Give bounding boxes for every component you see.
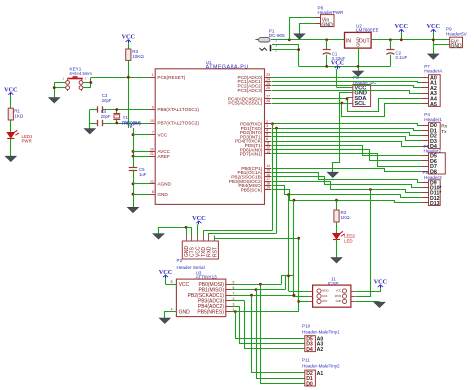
svg-text:LED: LED: [344, 238, 353, 243]
svg-text:MISO: MISO: [322, 290, 328, 293]
svg-text:SCK: SCK: [322, 295, 327, 298]
svg-text:21: 21: [150, 152, 154, 156]
svg-text:D4: D4: [306, 347, 313, 353]
svg-text:ATMEGA8A-PU: ATMEGA8A-PU: [206, 65, 249, 71]
svg-text:9: 9: [152, 106, 154, 110]
svg-text:A5: A5: [430, 102, 437, 108]
svg-text:PC5(ADC5SCL): PC5(ADC5SCL): [228, 101, 262, 106]
svg-text:HeaderA: HeaderA: [424, 68, 443, 73]
svg-text:Header Serial: Header Serial: [177, 265, 205, 270]
svg-text:P11: P11: [302, 358, 310, 363]
svg-text:SCL: SCL: [354, 101, 366, 107]
svg-text:Header-MaleTiny2: Header-MaleTiny2: [302, 364, 340, 369]
svg-text:1: 1: [152, 73, 154, 77]
svg-text:PWR: PWR: [22, 139, 32, 144]
svg-text:1KΩ: 1KΩ: [14, 113, 24, 118]
svg-text:Rx: Rx: [441, 124, 448, 130]
svg-text:IN: IN: [346, 38, 351, 44]
svg-text:20: 20: [150, 148, 154, 152]
svg-text:GND: GND: [157, 192, 168, 197]
svg-text:RST: RST: [322, 300, 327, 303]
svg-text:8: 8: [171, 280, 173, 284]
svg-text:1KΩ: 1KΩ: [341, 215, 351, 220]
svg-text:Header-MaleTiny1: Header-MaleTiny1: [302, 329, 340, 334]
svg-text:FREQ(8M): FREQ(8M): [122, 121, 142, 126]
svg-text:20pF: 20pF: [102, 98, 112, 103]
svg-text:MOSI: MOSI: [335, 295, 342, 298]
svg-text:P10: P10: [302, 323, 311, 328]
svg-text:Tx: Tx: [441, 129, 447, 135]
svg-text:PC6(RESET): PC6(RESET): [157, 75, 185, 80]
svg-text:PB5(NRES): PB5(NRES): [197, 309, 224, 315]
svg-text:7: 7: [152, 131, 154, 135]
svg-text:GND: GND: [451, 43, 463, 49]
svg-text:VCC: VCC: [157, 132, 168, 137]
svg-text:Header3: Header3: [424, 175, 442, 180]
svg-text:4: 4: [171, 307, 173, 311]
svg-text:PB5(SCK): PB5(SCK): [241, 187, 263, 192]
svg-text:26: 26: [266, 86, 270, 90]
svg-text:GND: GND: [321, 22, 333, 28]
svg-text:RST: RST: [212, 247, 218, 257]
svg-text:PB7(XTAL2TOSC2): PB7(XTAL2TOSC2): [157, 121, 199, 126]
svg-text:10: 10: [150, 119, 154, 123]
svg-text:Header5V: Header5V: [446, 31, 468, 36]
svg-text:13: 13: [266, 150, 270, 154]
svg-text:GND: GND: [356, 37, 361, 47]
svg-text:3: 3: [233, 302, 235, 306]
svg-text:28: 28: [266, 99, 270, 103]
svg-text:Header I2C: Header I2C: [353, 80, 377, 85]
svg-text:Header1: Header1: [424, 117, 442, 122]
svg-text:GND: GND: [336, 300, 342, 303]
svg-text:PC3(ADC3): PC3(ADC3): [238, 88, 263, 93]
svg-text:6×6×4.5mm: 6×6×4.5mm: [70, 71, 93, 76]
svg-text:D0: D0: [306, 381, 313, 387]
svg-text:A2: A2: [317, 347, 324, 353]
svg-text:10KΩ: 10KΩ: [132, 54, 144, 59]
svg-text:Y1: Y1: [123, 115, 129, 120]
svg-text:D13: D13: [430, 201, 440, 207]
svg-text:22: 22: [150, 180, 154, 184]
svg-text:1: 1: [275, 38, 277, 42]
svg-text:2: 2: [275, 48, 277, 52]
svg-text:20pF: 20pF: [101, 114, 111, 119]
svg-text:VCC: VCC: [336, 290, 341, 293]
svg-text:19: 19: [266, 186, 270, 190]
svg-text:0.1UF: 0.1UF: [396, 55, 408, 60]
svg-text:AREF: AREF: [157, 154, 170, 159]
svg-text:AGND: AGND: [157, 182, 171, 187]
svg-text:P2: P2: [177, 258, 183, 263]
svg-text:A1: A1: [317, 371, 324, 377]
svg-text:1uF: 1uF: [139, 172, 147, 177]
svg-text:8: 8: [152, 190, 154, 194]
svg-text:GND: GND: [179, 309, 191, 315]
svg-text:PD7(AIN1): PD7(AIN1): [240, 152, 263, 157]
svg-text:PB6(XTAL1TOSC1): PB6(XTAL1TOSC1): [157, 107, 199, 112]
svg-text:VCC: VCC: [179, 282, 190, 288]
